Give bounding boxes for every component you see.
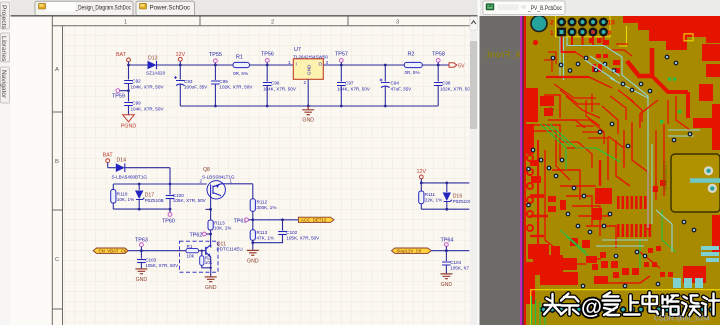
zener D16 — [443, 183, 472, 209]
svg-text:GND: GND — [247, 259, 259, 265]
power port 5V — [449, 63, 465, 70]
diode D14 — [108, 158, 148, 180]
PCB pad numbers — [550, 20, 615, 38]
PCB cyan bus on component — [690, 178, 720, 183]
ground GND (C103) — [135, 269, 147, 283]
test point TP55 — [209, 52, 222, 66]
test point TP62 — [190, 232, 213, 238]
resistor R114 — [208, 220, 231, 248]
ground GND (Q11) — [205, 277, 217, 291]
svg-text:TP60: TP60 — [162, 219, 175, 225]
PCB vias bottom — [581, 250, 661, 289]
svg-text:9: 9 — [608, 30, 612, 37]
svg-text:C97: C97 — [345, 81, 354, 86]
svg-text:5V: 5V — [458, 63, 465, 69]
svg-text:47uF, 35V: 47uF, 35V — [391, 86, 413, 91]
power port BAT (2) — [103, 153, 114, 168]
PCB cyan diagonal pair — [585, 56, 620, 80]
PCB workspace background — [480, 16, 720, 325]
resistor R1 (internal) — [186, 244, 206, 259]
PCB red cluster mid left — [548, 180, 666, 258]
svg-text:C94: C94 — [391, 81, 400, 86]
svg-text:2: 2 — [200, 179, 203, 184]
PCB bottom connector pad row — [540, 306, 715, 313]
wire D13 to R1 — [157, 64, 234, 66]
ground GND (C104) — [440, 274, 452, 288]
capacitor C104 — [442, 251, 469, 274]
svg-text:GND: GND — [441, 282, 453, 288]
svg-text:_Design_Diagram.SchDoc: _Design_Diagram.SchDoc — [75, 5, 132, 12]
node rail to Q8 source — [113, 183, 207, 186]
svg-text:R110: R110 — [117, 192, 128, 197]
test point TP60 — [162, 209, 175, 224]
svg-text:D14: D14 — [117, 158, 127, 164]
capacitor C95 — [211, 65, 253, 107]
svg-text:C100: C100 — [173, 193, 184, 198]
capacitor C92 — [124, 65, 164, 91]
wire D14 to node — [125, 168, 170, 184]
svg-text:TP62: TP62 — [190, 232, 203, 238]
ground GND (R113) — [247, 250, 259, 264]
svg-text:LC5493/AU0: LC5493/AU0 — [661, 162, 667, 191]
svg-text:TP57: TP57 — [335, 52, 348, 58]
PCB red bits bottom mid — [592, 246, 661, 278]
svg-text:C103: C103 — [145, 258, 156, 263]
diode D13 — [146, 56, 166, 76]
capacitor C94 — [380, 64, 413, 108]
wire BAT to D13 — [127, 64, 147, 67]
svg-text:TP58: TP58 — [432, 52, 445, 58]
svg-text:P0Z510B: P0Z510B — [145, 198, 164, 203]
PCB board outline (red) — [524, 16, 526, 325]
svg-text:300K, 1%: 300K, 1% — [257, 205, 277, 210]
svg-text:104K, X7R, 50V: 104K, X7R, 50V — [131, 106, 165, 111]
wire U7 to R2 — [323, 64, 404, 66]
PCB pad (component) — [708, 184, 717, 193]
svg-text:1: 1 — [550, 30, 554, 37]
wire Stop12V — [431, 250, 469, 252]
PCB copper pour left edge — [526, 88, 554, 304]
PCB red traces mid band — [530, 122, 664, 252]
svg-text:Q8: Q8 — [203, 167, 210, 173]
PCB board outline (magenta) — [520, 16, 522, 325]
resistor R1 — [233, 55, 250, 76]
power port 12V (2) — [417, 169, 427, 183]
sheet frame — [52, 17, 470, 325]
PCB board copper base — [526, 16, 720, 325]
PCB red pads cluster — [589, 38, 720, 150]
svg-text:105K, X7: 105K, X7 — [450, 266, 469, 271]
PCB silkscreen text Mark_Front (mirrored) — [481, 50, 536, 60]
test point TP63 — [135, 238, 148, 252]
svg-text:104K, X7R, 50V: 104K, X7R, 50V — [263, 86, 297, 91]
svg-text:C: C — [55, 257, 59, 263]
svg-text:C93: C93 — [184, 79, 193, 84]
svg-text:22K, 1%: 22K, 1% — [425, 198, 442, 203]
wire port to Q11 box — [128, 250, 186, 252]
PCB yellow outline left — [619, 26, 627, 46]
PCB green traces bottom left — [532, 296, 546, 325]
svg-text:GND: GND — [307, 64, 312, 75]
PCB mounting hole — [531, 16, 547, 32]
svg-text:Stop12V_Ctl: Stop12V_Ctl — [397, 249, 422, 254]
svg-text:CN_VBAT_Ctl: CN_VBAT_Ctl — [99, 249, 127, 254]
svg-text:104K, X7R, 50V: 104K, X7R, 50V — [337, 86, 371, 91]
power port BAT — [116, 52, 130, 65]
resistor R2 — [404, 52, 422, 76]
capacitor C97 — [337, 65, 371, 107]
svg-text:2: 2 — [550, 20, 554, 27]
svg-text:TP56: TP56 — [261, 52, 274, 58]
svg-text:3: 3 — [396, 19, 399, 25]
schematic document tab bar — [11, 0, 478, 16]
schematic background — [10, 17, 472, 325]
svg-text:100uF, 35V: 100uF, 35V — [184, 85, 208, 90]
svg-text:D13: D13 — [148, 56, 158, 62]
svg-text:12V: 12V — [417, 169, 427, 175]
svg-text:_PV_B.PcbDoc: _PV_B.PcbDoc — [527, 5, 562, 12]
svg-text:BAT: BAT — [116, 52, 127, 58]
svg-text:C104: C104 — [450, 260, 461, 265]
svg-text:PGND: PGND — [121, 124, 137, 130]
svg-text:CSDN @int_1034: CSDN @int_1034 — [654, 316, 710, 323]
svg-text:GND: GND — [205, 285, 217, 291]
wire R2 to 5V — [422, 64, 449, 66]
svg-text:R1: R1 — [187, 244, 193, 249]
test point TP61 — [234, 218, 255, 225]
svg-text:SZ1A620: SZ1A620 — [146, 71, 166, 76]
watermark 爱上电路设计 — [603, 293, 720, 316]
svg-text:C102: C102 — [286, 230, 297, 235]
capacitor C98 — [434, 65, 470, 106]
PCB pads red donut column left — [527, 155, 533, 231]
svg-text:C96: C96 — [271, 81, 280, 86]
svg-text:3: 3 — [326, 60, 329, 65]
capacitor C100 — [166, 184, 207, 209]
svg-text:47K, 1%: 47K, 1% — [257, 235, 274, 240]
svg-text:2: 2 — [304, 80, 307, 85]
svg-text:10K, 1%: 10K, 1% — [214, 226, 231, 231]
svg-text:R1: R1 — [236, 55, 243, 61]
PCB green traces mid — [540, 124, 676, 268]
port Stop12V_Ctl — [392, 248, 432, 254]
port ACC_DET12 — [298, 217, 334, 222]
svg-text:105K, X7R, 50V: 105K, X7R, 50V — [286, 236, 320, 241]
watermark 头条 — [544, 294, 579, 315]
PCB red traces mid — [544, 48, 688, 128]
svg-text:ACC_DET12: ACC_DET12 — [301, 218, 327, 223]
svg-text:S-LBA5400BT1G: S-LBA5400BT1G — [112, 174, 148, 179]
PCB pad (component) — [704, 166, 713, 175]
PCB connector J1 outline — [556, 12, 611, 37]
transistor Q11 (digital, dashed box) — [180, 241, 243, 272]
svg-text:Projects: Projects — [0, 5, 7, 30]
PCB cyan traces mid — [596, 130, 700, 252]
svg-text:PDTC114EU: PDTC114EU — [217, 247, 243, 252]
svg-text:R112: R112 — [257, 200, 268, 205]
PCB red component pads mid — [528, 160, 720, 259]
resistor R112 — [250, 199, 276, 230]
wire to port ACC — [253, 218, 299, 221]
ground PGND — [121, 115, 137, 130]
svg-text:C98: C98 — [442, 81, 451, 86]
test point TP56 — [261, 52, 274, 67]
regulator U7 — [288, 47, 329, 107]
PCB red stubs under connector — [562, 37, 604, 53]
svg-text:I: I — [296, 62, 297, 67]
PCB vias top — [542, 55, 679, 113]
capacitor C93 — [174, 65, 208, 106]
svg-text:10K, 1%: 10K, 1% — [117, 197, 134, 202]
svg-text:B: B — [55, 159, 59, 165]
resistor R2 (internal) — [200, 251, 213, 269]
svg-text:0R, 5%: 0R, 5% — [405, 70, 420, 75]
PCB cyan traces from connector — [548, 37, 648, 140]
svg-text:105K, X7R, 50V: 105K, X7R, 50V — [173, 198, 207, 203]
svg-text:C99: C99 — [132, 101, 141, 106]
PCB red trace web upper mid — [554, 84, 690, 168]
resistor R113 — [250, 230, 274, 250]
lower node rail — [113, 208, 171, 211]
test point TP59 — [112, 89, 130, 100]
svg-text:R111: R111 — [425, 192, 436, 197]
svg-text:1: 1 — [124, 19, 127, 25]
svg-text:105K, X7R, 50V: 105K, X7R, 50V — [145, 263, 179, 268]
svg-text:10k: 10k — [205, 260, 213, 265]
svg-text:104K, X7R, 50V: 104K, X7R, 50V — [131, 84, 165, 89]
wire Q8 gate down — [206, 195, 213, 220]
ground GND — [302, 106, 314, 124]
svg-text:C95: C95 — [219, 79, 228, 84]
PCB copper pour top right — [623, 16, 720, 50]
PCB component U (right) — [671, 154, 720, 212]
transistor Q11 symbol — [206, 245, 211, 277]
svg-text:@: @ — [581, 295, 602, 319]
test point TP64 — [441, 238, 454, 253]
PCB red pads bottom band — [533, 255, 706, 285]
capacitor C103 — [137, 251, 179, 269]
capacitor C99 — [124, 91, 164, 115]
svg-text:R113: R113 — [257, 230, 268, 235]
svg-text:GND: GND — [302, 118, 314, 124]
svg-text:C92: C92 — [132, 79, 141, 84]
PCB red dot — [533, 40, 538, 45]
svg-text:2: 2 — [271, 19, 274, 25]
svg-text:1: 1 — [230, 179, 233, 184]
svg-text:Libraries: Libraries — [0, 36, 7, 62]
svg-text:1: 1 — [288, 60, 291, 65]
wire Q8 drain right — [225, 184, 253, 199]
test point TP58 — [432, 52, 445, 67]
svg-text:P0Z510B: P0Z510B — [453, 199, 472, 204]
PCB red thin traces upper mid — [544, 44, 632, 72]
capacitor C102 — [253, 220, 320, 243]
transistor Q8 — [200, 167, 236, 199]
ground rail wire — [180, 105, 438, 107]
resistor R111 — [419, 183, 442, 209]
PCB connector J1 pads row 1 — [557, 18, 608, 27]
svg-text:Navigator: Navigator — [0, 70, 7, 99]
svg-text:102K, X7R, 50: 102K, X7R, 50 — [440, 86, 470, 91]
svg-text:0R, 5%: 0R, 5% — [233, 71, 248, 76]
PCB connector J1 pads row 2 — [557, 28, 608, 37]
svg-text:GND: GND — [136, 277, 148, 283]
PCB designator text — [661, 162, 667, 191]
wire R1 to U7 — [250, 64, 294, 66]
zener D17 — [135, 184, 164, 209]
svg-text:BAT: BAT — [103, 153, 114, 159]
PCB vias mid — [526, 122, 696, 235]
svg-text:U7: U7 — [294, 47, 301, 53]
resistor R110 — [111, 184, 134, 209]
capacitor C96 — [263, 65, 297, 107]
svg-text:TP55: TP55 — [209, 52, 222, 58]
PCB cyan SMD pads right — [673, 246, 719, 288]
port CN_VBAT_Ctl — [93, 248, 128, 254]
schematic vertical scrollbar — [470, 17, 478, 325]
svg-text:R2: R2 — [408, 52, 415, 58]
svg-text:O: O — [319, 62, 323, 67]
PCB keepout yellow line — [531, 290, 720, 325]
power port 12V — [176, 52, 186, 66]
svg-text:Power.SchDoc: Power.SchDoc — [150, 5, 191, 12]
PCB red traces bottom — [563, 252, 660, 283]
test point TP57 — [335, 52, 348, 67]
svg-text:10: 10 — [608, 20, 616, 27]
svg-text:102K, X7R, 50V: 102K, X7R, 50V — [219, 85, 253, 90]
svg-text:A: A — [55, 67, 59, 73]
rail bottom — [421, 208, 469, 211]
svg-text:10k: 10k — [187, 254, 195, 259]
PCB green pads — [660, 78, 681, 124]
rail 12V — [420, 182, 469, 185]
svg-text:TP59: TP59 — [112, 94, 125, 100]
